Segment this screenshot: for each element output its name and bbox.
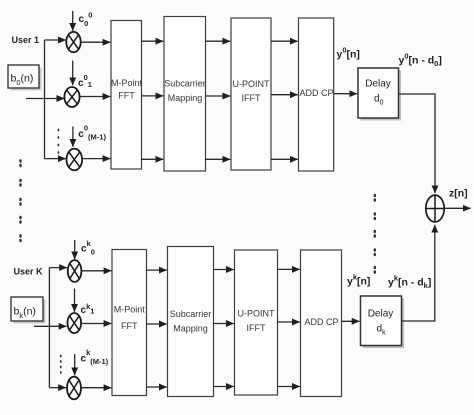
arrow code c0_0 into X1 xyxy=(72,11,74,31)
block Subcarrier Mapping user1 xyxy=(164,17,206,172)
wire X3 to M-Point FFT xyxy=(82,158,110,160)
svg-text:M-Point: M-Point xyxy=(111,78,143,88)
wire Delay dk to adder xyxy=(402,225,435,321)
block Subcarrier Mapping userK xyxy=(168,247,214,397)
label yk[n - dk] xyxy=(388,274,431,291)
wire Subcarrier to U-POINT row3 xyxy=(206,158,231,160)
wire U-POINT to ADD CP row3 xyxy=(271,158,298,160)
wire X4 to M-Point FFT xyxy=(81,270,111,272)
wire FFT to Subcarrier row2 xyxy=(142,95,164,97)
wire FFT2 to Subcarrier2 row1 xyxy=(147,269,167,271)
wire User K to multiplier X4 xyxy=(49,267,67,269)
label User 1 xyxy=(12,35,40,45)
wire FFT2 to Subcarrier2 row2 xyxy=(147,323,167,325)
label ck_1 xyxy=(81,302,95,316)
wire branch to multiplier X3 xyxy=(45,158,66,160)
multiplier X1 xyxy=(66,32,80,52)
arrow code c0_(M-1) into X3 xyxy=(72,127,74,147)
wire branch vertical user K xyxy=(48,268,50,388)
wire branch vertical user 1 xyxy=(44,40,46,159)
svg-text:U-POINT: U-POINT xyxy=(233,79,271,89)
block U-POINT IFFT userK xyxy=(235,250,278,395)
wire FFT2 to Subcarrier2 row3 xyxy=(147,386,167,388)
wire FFT to Subcarrier row1 xyxy=(142,40,164,42)
dots before ck_(M-1) xyxy=(60,355,62,374)
wire bk(n) to multiplier X5 xyxy=(34,325,67,327)
wire branch to multiplier X6 xyxy=(49,387,66,389)
wire Sub2 to U-POINT2 row3 xyxy=(214,386,234,388)
multiplier X4 xyxy=(68,260,82,282)
svg-text:ADD CP: ADD CP xyxy=(299,88,333,98)
block M-Point FFT user1 xyxy=(111,21,143,170)
svg-text:M-Point: M-Point xyxy=(114,305,146,315)
wire User 1 to multiplier X1 xyxy=(45,39,66,41)
label c0_1 xyxy=(78,73,92,89)
wire X2 to M-Point FFT xyxy=(80,96,111,98)
label c0_(M-1) xyxy=(78,124,106,142)
svg-text:User 1: User 1 xyxy=(12,35,40,45)
svg-text:IFFT: IFFT xyxy=(247,323,266,333)
wire FFT to Subcarrier row3 xyxy=(142,158,164,160)
label User K xyxy=(14,267,44,277)
multiplier X3 xyxy=(67,149,83,171)
delay block dk xyxy=(361,296,405,348)
ellipsis more users left xyxy=(19,159,21,242)
svg-text:User K: User K xyxy=(14,267,44,277)
arrow code ck_0 into X4 xyxy=(74,240,76,259)
multiplier X5 xyxy=(68,313,82,333)
wire Subcarrier to U-POINT row2 xyxy=(206,95,231,97)
svg-text:Subcarrier: Subcarrier xyxy=(170,309,212,319)
svg-text:U-POINT: U-POINT xyxy=(238,309,276,319)
svg-text:FFT: FFT xyxy=(118,91,135,101)
svg-text:Delay: Delay xyxy=(365,79,391,90)
svg-text:Delay: Delay xyxy=(368,309,394,320)
wire ADD CP2 to Delay dk xyxy=(342,320,360,322)
dots before c0_(M-1) xyxy=(58,129,60,154)
label y0[n - d0] xyxy=(399,52,442,69)
wire Sub2 to U-POINT2 row2 xyxy=(214,323,234,325)
label yk[n] xyxy=(347,273,370,288)
block ADD CP userK xyxy=(301,250,342,397)
wire U2 to ADD CP2 row1 xyxy=(278,268,300,270)
svg-text:Mapping: Mapping xyxy=(168,93,203,103)
label y0[n] xyxy=(337,46,360,61)
svg-text:Subcarrier: Subcarrier xyxy=(164,79,206,89)
arrow code c0_1 into X2 xyxy=(72,61,74,86)
label z[n] xyxy=(449,188,468,200)
input box bk(n) xyxy=(11,297,46,324)
svg-text:FFT: FFT xyxy=(121,321,138,331)
wire U2 to ADD CP2 row2 xyxy=(278,321,300,323)
wire ADD CP to Delay d0 xyxy=(334,93,358,95)
wire adder output xyxy=(444,207,470,209)
block M-Point FFT userK xyxy=(112,250,147,396)
wire X5 to M-Point FFT xyxy=(82,323,111,325)
multiplier X6 xyxy=(67,377,81,400)
wire b0(n) to multiplier X2 xyxy=(26,98,64,100)
svg-text:IFFT: IFFT xyxy=(242,93,261,103)
svg-text:Mapping: Mapping xyxy=(173,324,208,334)
label ck_0 xyxy=(81,239,95,257)
svg-text:ADD CP: ADD CP xyxy=(304,317,338,327)
arrow code ck_1 into X5 xyxy=(74,289,76,312)
wire Sub2 to U-POINT2 row1 xyxy=(214,269,234,271)
wire U2 to ADD CP2 row3 xyxy=(278,386,300,388)
wire Subcarrier to U-POINT row1 xyxy=(206,40,231,42)
wire X1 to M-Point FFT xyxy=(81,41,111,43)
wire U-POINT to ADD CP row2 xyxy=(271,94,298,96)
block ADD CP user1 xyxy=(299,18,334,171)
wire X6 to M-Point FFT xyxy=(81,387,111,389)
svg-text:yk[n]: yk[n] xyxy=(347,273,370,288)
block U-POINT IFFT user1 xyxy=(231,18,271,170)
delay block d0 xyxy=(358,68,401,121)
arrow code ck_(M-1) into X6 xyxy=(74,354,76,375)
wire U-POINT to ADD CP row1 xyxy=(271,40,298,42)
adder sum node xyxy=(426,195,444,222)
wire Delay d0 to adder xyxy=(399,94,436,193)
label ck_(M-1) xyxy=(81,348,109,366)
svg-text:z[n]: z[n] xyxy=(449,188,468,200)
multiplier X2 xyxy=(64,87,79,107)
svg-text:y0[n]: y0[n] xyxy=(337,46,360,61)
ellipsis more delays right xyxy=(374,194,376,274)
input box b0(n) xyxy=(8,65,42,91)
label c0_0 xyxy=(79,10,93,28)
